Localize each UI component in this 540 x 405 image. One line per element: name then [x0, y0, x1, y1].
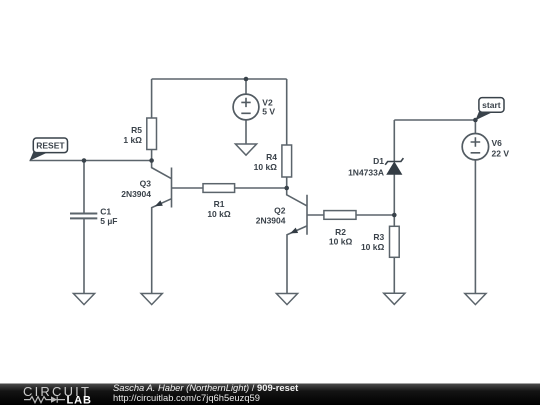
- svg-text:R5: R5: [131, 125, 142, 135]
- svg-text:22 V: 22 V: [492, 149, 510, 159]
- svg-text:R1: R1: [214, 199, 225, 209]
- svg-text:RESET: RESET: [36, 140, 65, 150]
- svg-text:R4: R4: [266, 152, 277, 162]
- svg-text:R2: R2: [335, 227, 346, 237]
- svg-text:C1: C1: [100, 206, 111, 216]
- svg-text:D1: D1: [373, 156, 384, 166]
- svg-text:10 kΩ: 10 kΩ: [361, 242, 385, 252]
- svg-text:V6: V6: [492, 138, 503, 148]
- svg-text:Q2: Q2: [274, 206, 286, 216]
- svg-text:http://circuitlab.com/c7jq6h5e: http://circuitlab.com/c7jq6h5euzq59: [113, 392, 260, 403]
- svg-text:R3: R3: [373, 232, 384, 242]
- svg-text:5 µF: 5 µF: [100, 216, 117, 226]
- svg-text:10 kΩ: 10 kΩ: [207, 209, 231, 219]
- svg-text:10 kΩ: 10 kΩ: [329, 237, 353, 247]
- svg-text:start: start: [482, 100, 501, 110]
- svg-text:5 V: 5 V: [262, 107, 275, 117]
- svg-text:LAB: LAB: [67, 394, 92, 405]
- svg-text:1 kΩ: 1 kΩ: [123, 135, 142, 145]
- svg-text:1N4733A: 1N4733A: [348, 168, 384, 178]
- svg-text:2N3904: 2N3904: [121, 189, 151, 199]
- svg-text:2N3904: 2N3904: [256, 216, 286, 226]
- svg-text:Q3: Q3: [140, 178, 152, 188]
- svg-text:10 kΩ: 10 kΩ: [254, 162, 278, 172]
